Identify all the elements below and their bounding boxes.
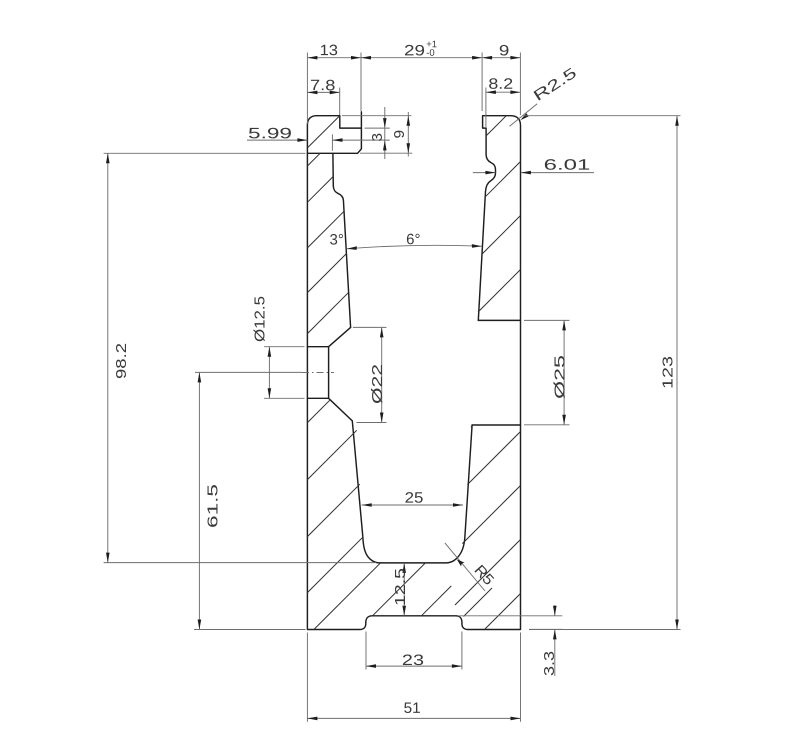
svg-text:3: 3 (369, 133, 386, 142)
dim 6.01 (473, 172, 496, 174)
arrow 5.99 at face (333, 138, 343, 142)
ext line 7.8 right (339, 88, 341, 116)
arrow 12.5b lower (402, 606, 406, 616)
svg-text:9: 9 (499, 42, 510, 59)
arrow 5.99 at edge (297, 138, 307, 142)
dim 7.8 (307, 91, 339, 93)
hatch bottom slab line 3 (421, 586, 451, 616)
main block outer edge, bottom face, bottom groove, right edge, top-right fillet R2.5, right wall lip and relief profile (307, 116, 520, 630)
arrow d12.5 upper (268, 347, 272, 357)
svg-text:6°: 6° (406, 231, 420, 248)
dim 3 vertical (384, 107, 386, 159)
hole 25 lower edge (472, 424, 520, 426)
arrow 3.3 upper (553, 606, 557, 616)
hatch bottom slab line 2 (373, 563, 426, 616)
hatch right wall line 3 (482, 216, 521, 255)
arrow 6.01 left (485, 171, 495, 175)
ext line 13 right / 29 left (360, 53, 362, 112)
countersink lower cone (329, 398, 353, 421)
arrow 3 lower (383, 140, 387, 150)
ext line d25 upper (524, 319, 570, 321)
dim 3.3 vertical (554, 605, 556, 615)
svg-text:23: 23 (402, 652, 424, 669)
dim 25 cavity bottom width (362, 504, 463, 506)
bore 12.5 upper edge (307, 346, 328, 348)
svg-text:7.8: 7.8 (310, 77, 335, 94)
arrow 12.5b upper (402, 563, 406, 573)
top cap piece outline (left wall upper block with notch) (307, 116, 361, 154)
arrow 13 left (307, 56, 317, 60)
hatch main wall line 5 (307, 292, 348, 333)
hatch bottom slab line 1 (314, 563, 381, 630)
svg-text:Ø25: Ø25 (552, 355, 569, 399)
hatch main wall line 8 (307, 484, 359, 536)
leader R2.5 (510, 104, 538, 127)
right cavity wall lower taper from hole to cavity bottom right fillet R5 (352, 421, 472, 563)
taper angle dimension arc (347, 245, 482, 249)
dim 9 depth vertical (407, 112, 409, 157)
arrow R2.5 (520, 113, 528, 120)
arrow 61.5 lower (198, 620, 202, 630)
ext line d22 upper (353, 326, 387, 328)
hatch main wall line 6 (307, 400, 330, 423)
hatch bottom slab line 4 (464, 588, 493, 617)
ext line 61.5 upper (hole axis) (195, 371, 302, 373)
dim 5.99 text and line (247, 139, 307, 141)
arrow 7.8 right (330, 91, 340, 95)
arrow 25 right (453, 503, 463, 507)
hatch right wall line 6 (467, 432, 520, 485)
ext line 51 right (520, 633, 522, 722)
dim 51 overall width (307, 717, 520, 719)
dim 123 vertical (676, 116, 678, 630)
dim 61.5 vertical (198, 372, 200, 629)
ext line 123 upper (top surface) (524, 115, 681, 117)
countersink upper cone (329, 327, 351, 346)
dim 23 groove width (366, 665, 462, 667)
hatch main wall line 3 (307, 211, 344, 248)
hatch bottom slab (314, 563, 492, 630)
svg-text:13: 13 (320, 42, 338, 59)
hole 25 upper edge (478, 319, 520, 321)
hatch right wall line 4 (478, 270, 521, 313)
ext line 5.99 face (331, 134, 333, 151)
arrow d22 upper (380, 327, 384, 337)
arrow 123 lower (675, 620, 679, 630)
arrow 3 upper (383, 118, 387, 128)
svg-text:98.2: 98.2 (113, 343, 130, 379)
arrow d25 lower (562, 415, 566, 425)
leader R5 (445, 543, 485, 591)
arrow 98.2 upper (106, 153, 110, 163)
dim dia 25 vertical (563, 320, 565, 424)
arrow 3.3 lower (553, 629, 557, 639)
svg-text:29: 29 (404, 42, 425, 59)
arrow 29 left (361, 56, 371, 60)
arrow 51 right (511, 717, 521, 721)
dim 12.5 bottom vertical (403, 563, 405, 616)
dim 13/29/9 shared dimension line (307, 57, 520, 59)
ext line 61.5 lower (bottom face) (194, 629, 306, 631)
arrow d22 lower (380, 413, 384, 423)
hatch right wall line 5 (471, 425, 473, 427)
ext line d22 lower (357, 422, 387, 424)
arrow angle right (472, 244, 482, 248)
arrow 29 right (472, 56, 482, 60)
cap inner face and chamfer to seam (307, 112, 361, 153)
arrow d25 upper (562, 320, 566, 330)
ext line 123 lower (bottom face) (529, 629, 681, 631)
ext line 9d lower (seam level) (360, 152, 412, 154)
arrow 123 upper (675, 116, 679, 126)
hatch right wall line 7 (462, 486, 520, 544)
arrow 23 right (452, 664, 462, 668)
arrow 51 left (307, 717, 317, 721)
svg-text:9: 9 (391, 130, 408, 139)
hatch right wall (455, 116, 521, 630)
svg-text:Ø12.5: Ø12.5 (252, 296, 269, 342)
svg-text:5.99: 5.99 (248, 125, 292, 142)
arrow 7.8 left (307, 91, 317, 95)
arrow 9 right (510, 56, 520, 60)
ext line d25 lower (524, 424, 570, 426)
hatch main wall line 1 (307, 153, 320, 166)
dim 8.2 (486, 91, 521, 93)
ext line 98.2 upper (seam level) (104, 152, 306, 154)
arrow d12.5 lower (268, 388, 272, 398)
ext line 13 left / 7.8 left / part edge top (306, 53, 308, 125)
cap hatch line (307, 116, 339, 148)
hatch right wall line 1 (486, 116, 506, 136)
svg-text:12.5: 12.5 (392, 568, 409, 606)
arrow 6.01 right (521, 171, 531, 175)
hole axis centerline (302, 372, 334, 374)
bore 12.5 lower edge (307, 397, 328, 399)
arrow 9d lower (407, 143, 411, 153)
arrow 9 left (482, 56, 492, 60)
arrow angle left (347, 246, 357, 250)
svg-text:-0: -0 (426, 48, 434, 59)
svg-text:6.01: 6.01 (544, 157, 591, 174)
ext line 3.3 lower (bottom face level) (529, 628, 562, 630)
arrow 98.2 lower (106, 553, 110, 563)
hatch main wall line 4 (307, 254, 346, 293)
left cavity wall: face below seam, relief jog and 3-degree taper (333, 153, 351, 327)
svg-text:Ø22: Ø22 (369, 364, 386, 404)
arrow 23 left (366, 664, 376, 668)
arrow 9d upper (407, 116, 411, 126)
countersink transition vertical (328, 347, 330, 399)
svg-text:61.5: 61.5 (205, 484, 222, 528)
svg-text:3.3: 3.3 (541, 651, 558, 676)
ext line 9 right / right edge top (519, 53, 521, 116)
ext line 29 right (481, 53, 483, 112)
hatch main wall line 7 (307, 430, 356, 479)
dim 98.2 vertical (107, 153, 109, 562)
dim dia 22 vertical (381, 327, 383, 422)
hatch main wall line 2 (307, 176, 333, 202)
ext line d12.5 upper (264, 346, 305, 348)
arrow 8.2 right (510, 90, 520, 94)
dim dia 12.5 vertical (268, 347, 270, 399)
ext line 51 left (306, 633, 308, 722)
hatch right wall line 9 (485, 594, 521, 630)
ext line 98.2 lower (cavity floor level) (104, 562, 376, 564)
ext line 23 right (461, 632, 463, 670)
ext line 3 upper (365, 127, 390, 129)
arrow 13 right (351, 56, 361, 60)
svg-text:3°: 3° (330, 231, 344, 248)
ext line 23 left (365, 632, 367, 670)
arrow 61.5 upper (198, 372, 202, 382)
svg-text:123: 123 (659, 356, 676, 389)
ext line 3.3 upper (groove ceiling level) (458, 615, 562, 617)
svg-text:25: 25 (405, 490, 424, 507)
arrow 8.2 left (486, 90, 496, 94)
hatch right wall line 2 (485, 162, 521, 198)
hatch main wall line 9 (307, 537, 363, 593)
arrow R5 (457, 559, 465, 566)
hatch right wall line 8 (455, 540, 521, 606)
ext line 9d upper (surface level) (342, 115, 411, 117)
ext line 8.2 left (485, 88, 487, 128)
svg-text:8.2: 8.2 (488, 76, 513, 93)
arrow 25 left (362, 503, 372, 507)
svg-text:51: 51 (404, 700, 421, 717)
ext line d12.5 lower (264, 397, 305, 399)
hatch main wall (307, 153, 363, 592)
